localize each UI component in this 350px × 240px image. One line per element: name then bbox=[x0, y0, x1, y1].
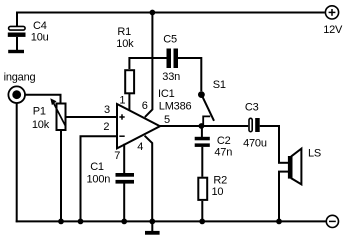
wire connector down to ground rail bbox=[16, 103, 18, 222]
svg-text:10k: 10k bbox=[116, 38, 134, 50]
svg-text:100n: 100n bbox=[87, 174, 111, 186]
wire pin 4 to ground bbox=[145, 136, 153, 222]
svg-text:C1: C1 bbox=[90, 161, 104, 173]
wire pin 1 lead to R1 bbox=[128, 94, 130, 111]
node dot C1 ground bbox=[121, 219, 127, 225]
wire pin 2 to ground rail bbox=[81, 136, 117, 221]
svg-text:R2: R2 bbox=[213, 175, 227, 187]
wire output pin 5 bbox=[159, 125, 248, 127]
ground below C4 bbox=[8, 50, 24, 53]
capacitor C4 bbox=[8, 26, 26, 50]
switch S1 bbox=[198, 91, 214, 125]
node dot P1 ground bbox=[58, 219, 64, 225]
wire P1 bottom to ground rail bbox=[60, 130, 62, 222]
svg-text:2: 2 bbox=[103, 121, 109, 133]
svg-text:LM386: LM386 bbox=[159, 101, 192, 113]
wire C1 to ground rail bbox=[123, 184, 125, 223]
svg-text:R1: R1 bbox=[117, 26, 131, 38]
wire C3 to speaker bbox=[260, 126, 279, 163]
ground symbol on rail bbox=[145, 221, 160, 234]
capacitor C2 bbox=[195, 127, 210, 177]
wire C4 top lead bbox=[16, 12, 18, 27]
capacitor C5 bbox=[167, 49, 179, 69]
wire pin 6 from supply bbox=[145, 13, 153, 118]
wire P1 wiper to pin 3 bbox=[66, 116, 117, 118]
node dot speaker ground bbox=[276, 219, 282, 225]
svg-text:LS: LS bbox=[308, 148, 321, 160]
op-amp IC1 triangle bbox=[117, 104, 160, 148]
wire top supply rail bbox=[17, 12, 325, 14]
node minus terminal bbox=[326, 215, 338, 227]
svg-text:IC1: IC1 bbox=[158, 88, 175, 100]
capacitor C3 bbox=[249, 118, 260, 132]
svg-text:P1: P1 bbox=[33, 106, 46, 118]
wire C5 to S1 bbox=[178, 58, 201, 91]
resistor R1 bbox=[125, 58, 152, 93]
capacitor C1 bbox=[116, 173, 135, 184]
wire R1 to C5 bbox=[152, 57, 166, 59]
node dot pin2 ground bbox=[78, 219, 84, 225]
svg-text:C5: C5 bbox=[163, 33, 177, 45]
wire connector to P1 top bbox=[25, 95, 61, 104]
wire bottom ground rail bbox=[16, 220, 326, 222]
node dot pin4 ground bbox=[149, 219, 155, 225]
svg-text:12V: 12V bbox=[323, 24, 343, 36]
svg-text:6: 6 bbox=[142, 100, 148, 112]
node supply junction dot bbox=[150, 10, 156, 16]
minus input mark bbox=[119, 135, 124, 137]
svg-text:10: 10 bbox=[212, 186, 224, 198]
svg-text:10u: 10u bbox=[31, 31, 49, 43]
svg-text:4: 4 bbox=[137, 141, 143, 153]
plus input mark bbox=[119, 114, 124, 119]
svg-text:S1: S1 bbox=[213, 79, 226, 91]
svg-text:ingang: ingang bbox=[4, 71, 36, 83]
svg-text:1: 1 bbox=[119, 94, 125, 106]
svg-text:7: 7 bbox=[114, 150, 120, 162]
svg-text:5: 5 bbox=[164, 114, 170, 126]
wire pin 7 lead down bbox=[123, 144, 125, 173]
node ingang input connector bbox=[8, 86, 25, 103]
node dot R2 ground bbox=[199, 219, 205, 225]
speaker LS bbox=[278, 149, 301, 185]
svg-text:3: 3 bbox=[104, 104, 110, 116]
svg-text:47n: 47n bbox=[214, 146, 232, 158]
potentiometer P1 bbox=[50, 98, 65, 130]
wire R2 to ground rail bbox=[201, 201, 203, 222]
resistor R2 bbox=[198, 178, 207, 200]
svg-text:10k: 10k bbox=[32, 119, 50, 131]
svg-text:C3: C3 bbox=[245, 102, 259, 114]
svg-text:33n: 33n bbox=[162, 71, 180, 83]
node output junction dot bbox=[199, 123, 205, 129]
node +12V terminal bbox=[325, 6, 338, 19]
svg-text:470u: 470u bbox=[243, 137, 267, 149]
wire speaker to ground rail bbox=[278, 172, 280, 223]
